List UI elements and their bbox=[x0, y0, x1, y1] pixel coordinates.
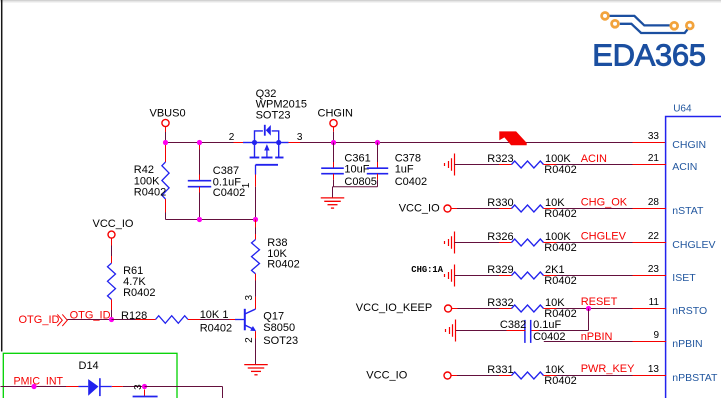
svg-text:C0805: C0805 bbox=[344, 176, 376, 188]
power flag arrow on CHGIN rail bbox=[499, 131, 526, 145]
svg-text:2: 2 bbox=[244, 337, 255, 343]
logo trace lower bbox=[620, 24, 689, 33]
svg-text:3: 3 bbox=[297, 132, 303, 143]
svg-text:PWR_KEY: PWR_KEY bbox=[581, 363, 635, 375]
svg-text:R0402: R0402 bbox=[544, 164, 576, 176]
wire R128 right lead red bbox=[188, 319, 200, 321]
svg-text:CHGLEV: CHGLEV bbox=[672, 239, 715, 251]
wire R331 right lead red bbox=[544, 375, 557, 377]
junction main rail at C378 bbox=[375, 140, 380, 145]
svg-text:9: 9 bbox=[653, 330, 659, 341]
svg-text:R42: R42 bbox=[134, 164, 154, 176]
svg-text:nPBSTAT: nPBSTAT bbox=[672, 372, 718, 384]
wire nPBIN row dark bbox=[544, 341, 633, 343]
resistor R331 bbox=[512, 372, 544, 379]
wire R42 top lead red bbox=[165, 143, 167, 163]
wire R330 left lead red bbox=[499, 208, 512, 210]
wire R38 top red bbox=[255, 220, 257, 228]
wire Q32 gate to bottom rail bbox=[255, 187, 257, 220]
wire C361 top lead red bbox=[333, 162, 335, 168]
junction D14 node bbox=[142, 384, 147, 389]
svg-text:nPBIN: nPBIN bbox=[672, 338, 702, 350]
junction main rail at C387 bbox=[197, 140, 202, 145]
svg-text:PMIC_INT: PMIC_INT bbox=[14, 375, 64, 387]
wire U64 pin33 stub red bbox=[633, 142, 667, 144]
svg-text:R0402: R0402 bbox=[544, 242, 576, 254]
wire R330 right lead red bbox=[544, 208, 557, 210]
U64 pin 21 stub red bbox=[633, 164, 667, 166]
rotated ground at C382 bbox=[455, 320, 457, 342]
svg-text:U64: U64 bbox=[673, 104, 692, 115]
svg-text:C0402: C0402 bbox=[533, 331, 565, 343]
wire bottom rail bbox=[166, 219, 256, 221]
svg-text:VCC_IO: VCC_IO bbox=[366, 369, 407, 381]
svg-text:nSTAT: nSTAT bbox=[672, 205, 704, 217]
svg-text:S8050: S8050 bbox=[263, 322, 295, 334]
ground under Q17 bbox=[244, 364, 268, 366]
resistor R323 bbox=[512, 161, 544, 168]
wire C361 top dark bbox=[333, 143, 335, 163]
wire R61 top lead red bbox=[111, 256, 113, 263]
junction PMIC_INT bbox=[31, 384, 36, 389]
wire RESET node down bbox=[588, 309, 590, 331]
left window border line bbox=[1, 0, 3, 352]
svg-text:100K: 100K bbox=[545, 231, 571, 243]
svg-text:CHGIN: CHGIN bbox=[672, 139, 706, 151]
wire CHGLEV row left dark bbox=[455, 242, 500, 244]
svg-text:C378: C378 bbox=[395, 152, 421, 164]
svg-text:10K 1: 10K 1 bbox=[200, 309, 229, 321]
wire C361 bottom lead red bbox=[333, 174, 335, 180]
svg-text:C382: C382 bbox=[500, 319, 526, 331]
logo pad 2 bbox=[612, 20, 619, 27]
wire CHGIN stub bbox=[333, 127, 335, 132]
svg-text:13: 13 bbox=[648, 364, 660, 375]
wire R331 right dark bbox=[557, 375, 633, 377]
wire nSTAT port stub red bbox=[451, 208, 457, 210]
wire OTG_ID to junction bbox=[67, 319, 111, 321]
svg-text:VCC_IO: VCC_IO bbox=[93, 218, 134, 230]
wire Q17 base lead red bbox=[230, 319, 236, 321]
wire PMIC_INT from left edge bbox=[1, 386, 67, 388]
svg-text:21: 21 bbox=[648, 153, 660, 164]
svg-text:C0402: C0402 bbox=[395, 176, 427, 188]
rotated ground at ISET row bbox=[454, 265, 456, 287]
wire main rail dark left bbox=[166, 142, 234, 144]
wire D14 node to right bbox=[145, 386, 223, 388]
svg-text:CHG_OK: CHG_OK bbox=[581, 196, 628, 208]
capacitor C361 bbox=[321, 167, 344, 169]
power port VCC_IO circle (left) bbox=[108, 231, 115, 238]
wire C378 bottom lead red bbox=[377, 174, 379, 180]
power port CHGIN circle bbox=[330, 120, 337, 127]
svg-text:R323: R323 bbox=[487, 153, 513, 165]
offpage connector OTG_ID chevrons bbox=[57, 314, 62, 326]
resistor R42 bbox=[162, 162, 169, 199]
svg-text:nRSTO: nRSTO bbox=[672, 305, 707, 317]
logo pad 1 bbox=[602, 13, 609, 20]
wire R330 right dark bbox=[557, 208, 633, 210]
svg-text:R0402: R0402 bbox=[544, 208, 576, 220]
logo pad 3 bbox=[671, 22, 678, 29]
svg-text:R329: R329 bbox=[487, 264, 513, 276]
wire C387 bottom lead red bbox=[199, 187, 201, 193]
wire Q32 pin2 stub red bbox=[234, 142, 244, 144]
wire nPBSTAT row left dark bbox=[457, 375, 499, 377]
svg-text:23: 23 bbox=[648, 264, 660, 275]
wire VBUS0 stub bbox=[165, 127, 167, 132]
svg-text:SOT23: SOT23 bbox=[263, 335, 298, 347]
wire nPBSTAT port stub red bbox=[451, 375, 457, 377]
wire Q17 collector lead red bbox=[255, 297, 257, 309]
wire ACIN row left dark bbox=[455, 164, 500, 166]
diode D14 bbox=[79, 386, 89, 388]
wire C382 right lead red bbox=[531, 330, 538, 332]
rotated ground at CHGLEV row bbox=[454, 232, 456, 254]
wire C387 top stub red bbox=[199, 143, 201, 150]
ground under C361 bbox=[321, 197, 345, 199]
wire C387 top dark bbox=[199, 150, 201, 175]
wire R332 right dark bbox=[557, 308, 633, 310]
svg-text:R0402: R0402 bbox=[123, 287, 155, 299]
wire D14 to junction dark bbox=[123, 386, 145, 388]
svg-text:R0402: R0402 bbox=[267, 259, 299, 271]
svg-text:nPBIN: nPBIN bbox=[581, 331, 613, 343]
svg-text:R128: R128 bbox=[121, 310, 147, 322]
junction bottom rail at gate bbox=[253, 217, 258, 222]
svg-text:100K: 100K bbox=[134, 175, 160, 187]
wire corner down at right bbox=[222, 387, 224, 398]
U64 pin 11 stub red bbox=[633, 308, 667, 310]
wire R38 bottom lead red bbox=[255, 274, 257, 281]
wire R323 right dark bbox=[557, 164, 633, 166]
svg-text:100K: 100K bbox=[545, 153, 571, 165]
resistor R38 bbox=[252, 240, 260, 274]
wire C387 top lead red bbox=[199, 175, 201, 181]
U64 pin 22 stub red bbox=[633, 242, 667, 244]
IC U64 box bbox=[666, 117, 721, 398]
svg-text:10K: 10K bbox=[545, 297, 565, 309]
wire C361 bottom dark bbox=[333, 180, 335, 187]
junction bottom rail at C387 bbox=[197, 217, 202, 222]
wire R323 right lead red bbox=[544, 164, 557, 166]
svg-text:VCC_IO: VCC_IO bbox=[399, 202, 440, 214]
wire C382 left lead red bbox=[507, 330, 526, 332]
junction main rail at R42 bbox=[163, 140, 168, 145]
wire C378 top dark bbox=[377, 143, 379, 163]
transistor Q17 (NPN S8050 SOT23) bbox=[244, 309, 246, 331]
svg-text:R331: R331 bbox=[487, 364, 513, 376]
wire R329 left lead red bbox=[499, 275, 512, 277]
wire R332 left lead red bbox=[499, 308, 512, 310]
resistor R330 bbox=[512, 205, 544, 212]
svg-text:C361: C361 bbox=[344, 152, 370, 164]
svg-text:2: 2 bbox=[229, 132, 235, 143]
svg-text:1uF: 1uF bbox=[395, 164, 414, 176]
svg-text:RESET: RESET bbox=[581, 296, 618, 308]
svg-text:VCC_IO_KEEP: VCC_IO_KEEP bbox=[356, 302, 432, 314]
wire R332 right lead red bbox=[544, 308, 557, 310]
wire C382 left dark bbox=[456, 330, 507, 332]
svg-text:R0402: R0402 bbox=[544, 375, 576, 387]
svg-text:CHGIN: CHGIN bbox=[318, 108, 354, 120]
wire R42 to bottom rail bbox=[165, 213, 167, 220]
wire R329 right dark bbox=[557, 275, 633, 277]
junction main rail at CHGIN bbox=[331, 140, 336, 145]
svg-text:D14: D14 bbox=[79, 360, 99, 372]
resistor R128 bbox=[156, 316, 189, 324]
wire Q17 emitter lead red bbox=[255, 331, 257, 338]
logo trace upper bbox=[609, 16, 670, 26]
capacitor C378 bbox=[367, 167, 388, 169]
logo pad 4 bbox=[686, 22, 693, 29]
wire C378 top lead red bbox=[377, 162, 379, 168]
power port VCC_IO circle (nSTAT row) bbox=[444, 205, 451, 212]
svg-text:11: 11 bbox=[649, 297, 660, 308]
wire C387 bottom dark bbox=[199, 193, 201, 220]
wire VCC_IO to R61 dark bbox=[111, 246, 113, 257]
capacitor plate below (partial) bbox=[133, 396, 158, 398]
svg-text:0.1uF: 0.1uF bbox=[533, 319, 561, 331]
wire nSTAT row left dark bbox=[457, 208, 499, 210]
power port VBUS0 circle bbox=[162, 119, 169, 126]
resistor R61 bbox=[108, 263, 116, 299]
capacitor C387 bbox=[188, 180, 211, 182]
wire nRSTO port stub red bbox=[452, 308, 458, 310]
svg-text:10uF: 10uF bbox=[344, 164, 369, 176]
svg-text:R326: R326 bbox=[487, 231, 513, 243]
wire R331 left lead red bbox=[499, 375, 512, 377]
wire R128 left lead red bbox=[136, 319, 156, 321]
svg-text:Q17: Q17 bbox=[263, 311, 284, 323]
resistor R332 bbox=[512, 305, 544, 312]
wire cap stub below junction red bbox=[144, 390, 146, 398]
U64 pin 13 stub red bbox=[633, 375, 667, 377]
junction RESET node bbox=[586, 306, 591, 311]
wire VCC_IO stub bbox=[111, 238, 113, 245]
svg-text:R0402: R0402 bbox=[544, 275, 576, 287]
wire Q32 pin3 stub red bbox=[288, 142, 300, 144]
svg-text:CHG:1A: CHG:1A bbox=[411, 265, 443, 275]
wire R329 right lead red bbox=[544, 275, 557, 277]
wire D14 cathode lead red bbox=[112, 386, 123, 388]
svg-text:22: 22 bbox=[648, 231, 660, 242]
svg-text:ACIN: ACIN bbox=[672, 161, 697, 173]
svg-text:3: 3 bbox=[244, 294, 255, 300]
wire R38 bottom dark bbox=[255, 281, 257, 297]
svg-text:VBUS0: VBUS0 bbox=[150, 108, 186, 120]
wire gnd stem bbox=[332, 187, 334, 198]
svg-text:R0402: R0402 bbox=[134, 187, 166, 199]
svg-text:10K: 10K bbox=[545, 364, 565, 376]
wire Q32 gate stub red bbox=[255, 175, 257, 187]
svg-text:C387: C387 bbox=[213, 165, 239, 177]
svg-text:SOT23: SOT23 bbox=[256, 109, 291, 121]
wire C378 bottom dark bbox=[377, 180, 379, 187]
wire nRSTO row left dark bbox=[458, 308, 500, 310]
power port VCC_IO circle (nPBSTAT row) bbox=[444, 372, 451, 379]
wire junction to R128 dark bbox=[112, 319, 136, 321]
wire ISET row left dark bbox=[455, 275, 500, 277]
svg-text:R330: R330 bbox=[487, 197, 513, 209]
svg-text:33: 33 bbox=[648, 131, 660, 142]
top window border bar bbox=[0, 0, 721, 1]
svg-text:EDA365: EDA365 bbox=[592, 38, 705, 73]
wire R128 to Q17 dark bbox=[200, 319, 230, 321]
transistor Q32 (PMOS WPM2015 SOT23) bbox=[243, 142, 255, 144]
svg-text:ACIN: ACIN bbox=[581, 153, 607, 165]
wire R326 right dark bbox=[557, 242, 633, 244]
wire R326 left lead red bbox=[499, 242, 512, 244]
annotation green box bbox=[3, 353, 177, 398]
wire main rail dark right bbox=[300, 142, 633, 144]
wire R38 top dark bbox=[255, 228, 257, 235]
svg-text:R0402: R0402 bbox=[200, 322, 232, 334]
U64 pin 9 stub red bbox=[633, 341, 667, 343]
wire R61 bottom lead red bbox=[111, 300, 113, 311]
svg-text:ISET: ISET bbox=[672, 272, 696, 284]
U64 pin 23 stub red bbox=[633, 275, 667, 277]
capacitor C382 bbox=[530, 320, 532, 343]
svg-text:10K: 10K bbox=[545, 197, 565, 209]
wire cap bottoms tie bbox=[333, 186, 378, 188]
rotated ground at ACIN row bbox=[454, 154, 456, 176]
wire D14 anode lead red bbox=[66, 386, 79, 388]
svg-text:C0402: C0402 bbox=[213, 187, 245, 199]
power port VCC_IO_KEEP circle bbox=[445, 305, 452, 312]
wire C382 right dark bbox=[539, 330, 589, 332]
junction node OTG_ID bbox=[109, 317, 114, 322]
wire R42 bottom lead red bbox=[165, 199, 167, 213]
wire Q17 emitter to gnd bbox=[255, 339, 257, 365]
resistor R326 bbox=[512, 239, 544, 246]
svg-text:2K1: 2K1 bbox=[545, 264, 565, 276]
resistor R329 bbox=[512, 272, 544, 279]
svg-text:R332: R332 bbox=[487, 297, 513, 309]
wire R61 bottom dark bbox=[111, 310, 113, 320]
wire R326 right lead red bbox=[544, 242, 557, 244]
wire R38 top lead red bbox=[255, 234, 257, 240]
wire R323 left lead red bbox=[499, 164, 512, 166]
svg-text:CHGLEV: CHGLEV bbox=[581, 231, 627, 243]
svg-text:OTG_ID: OTG_ID bbox=[19, 314, 60, 326]
svg-text:28: 28 bbox=[648, 197, 660, 208]
U64 pin 28 stub red bbox=[633, 208, 667, 210]
